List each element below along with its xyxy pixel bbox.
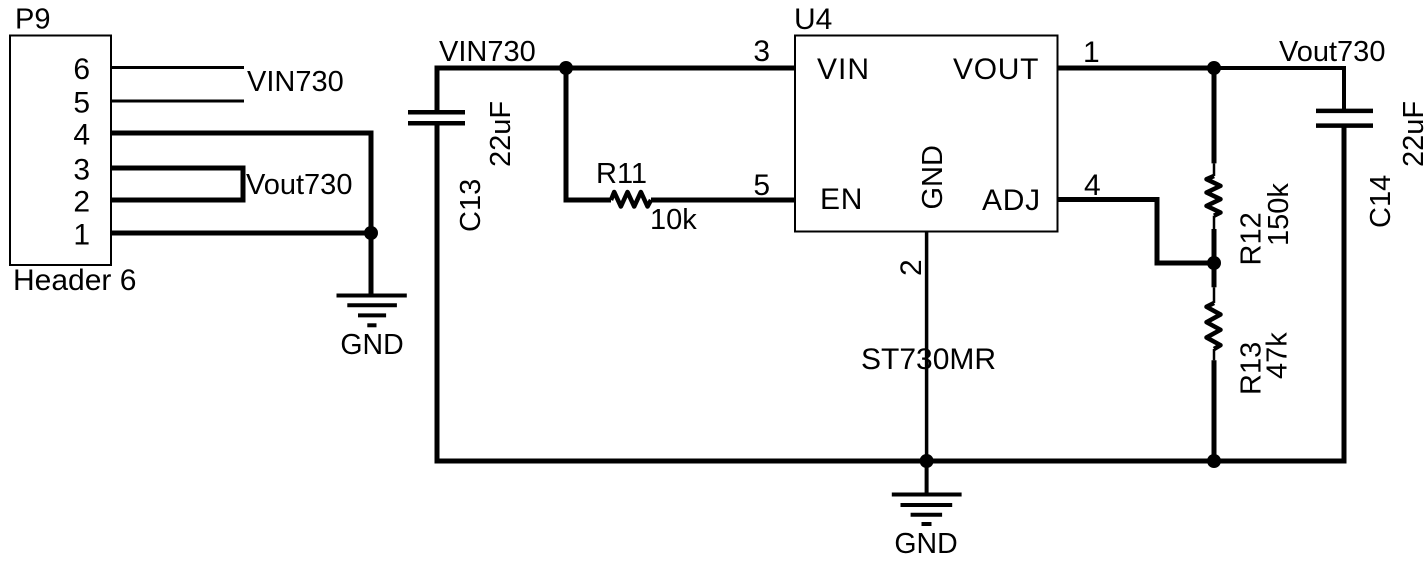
svg-text:3: 3: [73, 154, 90, 187]
capacitor C14 top plate: [1316, 109, 1373, 114]
resistor R12 body: [1207, 176, 1221, 216]
svg-text:R11: R11: [596, 158, 647, 190]
svg-text:4: 4: [73, 119, 90, 152]
wire ground rail: [437, 125, 1344, 462]
wire U4 GND pin 2: [925, 232, 929, 462]
wire P9 pin 4: [111, 133, 371, 233]
wire R11 to U4 EN: [651, 198, 795, 203]
svg-text:6: 6: [73, 53, 90, 86]
wire VIN730 down to R11: [566, 68, 611, 200]
svg-text:1: 1: [1083, 36, 1100, 69]
resistor R12 top lead: [1213, 163, 1216, 176]
svg-text:VIN: VIN: [817, 53, 870, 86]
junction node VOUT split: [1207, 61, 1221, 75]
wire P9 pin 3 to pin 2 loop: [111, 168, 243, 200]
wire VOUT junction to R12: [1212, 68, 1217, 163]
svg-text:47k: 47k: [1262, 332, 1294, 379]
svg-text:2: 2: [73, 186, 90, 219]
resistor R13 body: [1207, 303, 1221, 349]
wire P9 pin 5: [111, 100, 244, 103]
capacitor C13 top plate: [408, 110, 465, 115]
wire P9 pin 1: [111, 231, 371, 236]
svg-text:U4: U4: [794, 3, 832, 36]
op-amp U4 body: [795, 36, 1058, 232]
svg-text:22uF: 22uF: [1398, 101, 1426, 167]
junction node GND rail / R13: [1207, 454, 1221, 468]
junction node ADJ/R12/R13: [1207, 256, 1221, 270]
resistor R12 bottom lead: [1213, 216, 1216, 229]
svg-text:GND: GND: [340, 329, 403, 361]
wire R12 to ADJ node: [1212, 229, 1217, 263]
wire R13 to ground rail: [1212, 360, 1217, 461]
svg-text:P9: P9: [15, 4, 50, 36]
svg-text:5: 5: [73, 87, 90, 120]
capacitor C13 bottom plate: [408, 121, 465, 126]
wire ADJ node to R13: [1212, 263, 1217, 287]
svg-text:VOUT: VOUT: [953, 53, 1039, 86]
svg-text:ST730MR: ST730MR: [861, 343, 996, 376]
resistor R13 top lead: [1213, 287, 1216, 303]
svg-text:1: 1: [73, 219, 90, 252]
resistor R13 bottom lead: [1213, 349, 1216, 360]
wire rail to ground symbol: [925, 461, 929, 495]
wire U4 VOUT pin 1: [1058, 66, 1215, 71]
svg-text:Vout730: Vout730: [1279, 36, 1385, 68]
svg-text:C14: C14: [1365, 175, 1397, 228]
svg-text:GND: GND: [894, 528, 957, 560]
wire VIN730 net to U4 VIN: [437, 68, 795, 111]
ground symbol at rail: [892, 495, 962, 525]
svg-text:VIN730: VIN730: [247, 66, 344, 98]
svg-text:10k: 10k: [650, 204, 697, 236]
wire VOUT to C14: [1214, 68, 1344, 111]
capacitor C14 bottom plate: [1316, 123, 1373, 128]
svg-text:3: 3: [753, 35, 770, 68]
svg-text:Header 6: Header 6: [13, 264, 136, 297]
junction node pin1/pin4: [364, 226, 378, 240]
junction node VIN730 split: [559, 61, 573, 75]
resistor R11 body: [611, 192, 651, 207]
wire U4 ADJ pin 4: [1058, 200, 1215, 264]
junction node GND rail / pin 2: [920, 454, 934, 468]
svg-text:GND: GND: [917, 145, 949, 209]
svg-text:EN: EN: [820, 183, 863, 216]
svg-text:150k: 150k: [1263, 183, 1295, 246]
svg-text:ADJ: ADJ: [982, 184, 1041, 217]
wire P9 pin 6: [111, 66, 244, 69]
wire junction to ground: [369, 233, 374, 296]
ground symbol at header: [337, 296, 407, 326]
svg-text:4: 4: [1084, 169, 1101, 202]
svg-text:2: 2: [895, 259, 928, 276]
svg-text:VIN730: VIN730: [439, 36, 536, 68]
svg-text:22uF: 22uF: [485, 101, 517, 167]
svg-text:Vout730: Vout730: [246, 169, 352, 201]
svg-text:5: 5: [753, 169, 770, 202]
connector P9 body: [10, 36, 111, 266]
svg-text:C13: C13: [455, 179, 487, 232]
